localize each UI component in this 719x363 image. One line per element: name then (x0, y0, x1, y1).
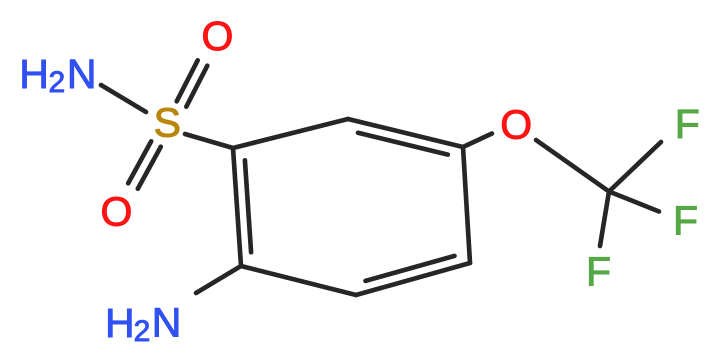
aromatic inner line C2-C3 (358, 133, 448, 155)
ring edge C5-C6 (241, 266, 356, 295)
svg-text:H: H (19, 51, 49, 97)
svg-text:O: O (500, 101, 532, 147)
ring edge C4-C5 (356, 263, 470, 295)
svg-text:2: 2 (134, 315, 151, 348)
wire bond C-F2 (609, 192, 659, 212)
ring edge C6-C1 (233, 148, 241, 266)
svg-text:H: H (105, 300, 135, 346)
svg-text:S: S (154, 100, 181, 146)
wire S=O left double bond (128, 141, 151, 183)
wire bond C-F1 (609, 142, 661, 192)
wire S=O top double bond (177, 60, 198, 101)
svg-text:F: F (675, 101, 700, 147)
svg-text:O: O (100, 188, 132, 234)
svg-text:2: 2 (49, 66, 66, 99)
wire bond C-F3 (600, 192, 609, 247)
ring edge C1-C2 (233, 119, 348, 148)
wire bond C6-N(amine) (196, 266, 241, 293)
svg-text:O: O (201, 13, 233, 59)
wire bond S-C1 (185, 134, 233, 148)
svg-text:N: N (67, 51, 97, 97)
ring edge C3-C4 (463, 147, 470, 263)
wire bond O(ether)-C(CF3) (536, 140, 609, 192)
aromatic inner line C6-C1 (245, 160, 251, 252)
aromatic inner line C4-C5 (366, 256, 455, 281)
ring edge C2-C3 (348, 119, 463, 147)
wire bond C3-O(ether) (463, 134, 492, 148)
wire bond N-S (101, 85, 146, 112)
svg-text:F: F (673, 198, 698, 244)
svg-text:N: N (152, 300, 182, 346)
svg-text:F: F (586, 248, 611, 294)
